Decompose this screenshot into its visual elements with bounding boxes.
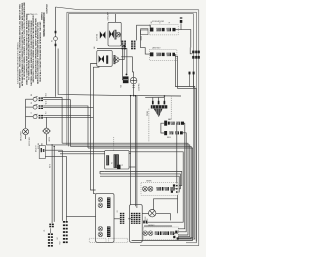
probe pins	[152, 97, 165, 104]
wire right drop1	[176, 123, 178, 183]
wire sw2b	[43, 107, 93, 109]
wire neutral drop	[55, 7, 57, 37]
svg-text:BK-70: BK-70	[49, 164, 51, 168]
connector CT1	[122, 41, 126, 50]
label M2	[48, 137, 51, 142]
wire bus1	[62, 143, 188, 235]
label E2	[167, 137, 171, 139]
svg-text:P1: P1	[44, 230, 46, 232]
connector CB1	[120, 213, 124, 224]
lamp B	[113, 55, 119, 64]
motor M1 leads	[25, 135, 27, 139]
label CB	[117, 210, 119, 212]
igniter chain T	[141, 183, 178, 196]
motor M4	[145, 210, 156, 225]
svg-text:8101P569-60 WIRING INFORMATIO: 8101P569-60 WIRING INFORMATION SCHEMATIC	[17, 41, 20, 84]
thermal fuse	[120, 76, 128, 88]
wire under3	[100, 176, 179, 192]
component P1 box	[39, 146, 45, 159]
svg-text:IGNITER 2: IGNITER 2	[148, 225, 155, 227]
svg-text:P2-8: P2-8	[59, 241, 61, 244]
subtitle horizontal	[27, 13, 39, 16]
connector W2	[193, 72, 195, 89]
wire KV1	[130, 96, 132, 205]
junction GT1	[176, 185, 178, 187]
wire right drop2	[177, 195, 179, 213]
wire bus y48	[97, 49, 127, 74]
wire K1 r3	[129, 166, 136, 168]
door switch B	[97, 51, 112, 67]
wire A top	[115, 14, 117, 23]
label sw leads	[45, 93, 47, 114]
wire V3b	[65, 156, 67, 221]
svg-text:GY: GY	[57, 237, 59, 239]
title text	[42, 4, 49, 37]
wire E feed	[161, 123, 164, 133]
wire chainB right	[174, 232, 178, 234]
wire B right	[119, 47, 124, 60]
wire B left2	[93, 66, 99, 193]
motor M2 leads	[46, 134, 48, 145]
wire K1 dotted	[113, 137, 115, 151]
connector CB2	[131, 213, 135, 224]
svg-text:R-9: R-9	[45, 111, 47, 113]
junction J2	[55, 44, 57, 47]
connector CL2	[48, 228, 53, 246]
svg-text:BROIL: BROIL	[167, 137, 171, 139]
svg-text:P1: P1	[122, 164, 124, 166]
connector CL1	[49, 224, 54, 228]
wire CT step	[141, 30, 151, 54]
latch switch row 2	[149, 50, 177, 61]
label wire codes	[36, 143, 41, 152]
wire E2 right	[178, 133, 186, 232]
wire L3 drop ext	[67, 96, 69, 146]
wire CB link	[114, 218, 131, 220]
junction A3	[126, 73, 128, 75]
wire fan down	[132, 84, 134, 96]
junction GT3	[176, 191, 178, 193]
fan motor M3	[130, 77, 137, 84]
label row2	[152, 47, 161, 50]
label row1	[152, 20, 165, 23]
wire row1 to R1	[181, 30, 191, 48]
wire CT feed	[137, 25, 151, 40]
wire fuse feed	[121, 49, 124, 80]
wire L2 inner loop	[67, 12, 197, 243]
motor M1 fan	[19, 129, 31, 147]
control board K1	[105, 151, 129, 169]
switch S3	[26, 111, 44, 118]
wire fan feed	[121, 57, 133, 77]
lamp box L dashes	[89, 238, 128, 242]
wire chainT link	[175, 188, 177, 190]
label chainB	[148, 225, 155, 227]
junction GT2	[176, 188, 178, 190]
wire K1 r2	[129, 153, 131, 155]
label B	[94, 46, 96, 49]
wire M4 left	[142, 213, 148, 215]
wire R1 stub	[190, 48, 192, 54]
wire A right	[119, 35, 121, 43]
junction KV2	[135, 95, 137, 97]
label CR text	[59, 241, 61, 244]
label CL text	[44, 164, 59, 240]
label E1	[168, 118, 172, 121]
wire bus y94	[58, 49, 181, 97]
probe bar	[151, 105, 168, 108]
wire sw3 to M2	[46, 117, 48, 128]
lamp box R	[130, 205, 143, 243]
wire V2	[54, 146, 55, 222]
element E1	[164, 121, 184, 126]
motor M2 latch	[42, 128, 51, 134]
wire N top bus	[68, 14, 193, 238]
probe jack	[154, 109, 163, 117]
wire KV2	[135, 96, 137, 206]
wire P1 up	[41, 143, 43, 145]
connector R1	[192, 51, 200, 59]
junction F2	[164, 95, 166, 97]
svg-text:P4: P4	[117, 210, 119, 212]
wire bus2	[47, 145, 190, 237]
wire sw1a	[43, 98, 62, 144]
igniter chain B	[143, 227, 179, 240]
wire feed c1	[58, 150, 105, 152]
wire M4 right	[156, 214, 170, 221]
wire neutral drop 2	[55, 41, 57, 97]
wire K1 r1	[129, 152, 183, 222]
svg-text:BK: BK	[31, 94, 33, 96]
svg-text:BK-54 GY: BK-54 GY	[36, 145, 38, 152]
wire V3	[61, 150, 63, 221]
svg-text:W-12: W-12	[45, 101, 47, 105]
wire sw1b	[43, 100, 70, 147]
junction F1	[133, 95, 135, 97]
wire KV3	[136, 96, 138, 208]
wire under left	[100, 172, 105, 174]
wire lower link	[148, 221, 171, 223]
svg-text:MAYTAG CO.: MAYTAG CO.	[27, 13, 39, 16]
wire bus3	[70, 146, 191, 238]
wire L1 outer loop	[56, 7, 199, 246]
wire sw3b	[43, 116, 93, 118]
wire V3 branch	[66, 216, 95, 218]
wire sw2a	[43, 106, 88, 148]
part number text	[17, 41, 20, 84]
svg-text:WIRING INFORMATION: WIRING INFORMATION	[43, 12, 46, 36]
latch switch row 1	[149, 21, 178, 35]
wire V1	[51, 144, 52, 223]
switch S1	[26, 94, 44, 101]
connector T1	[180, 17, 183, 23]
svg-text:BK-6: BK-6	[45, 93, 47, 96]
wire L2 drop ext	[66, 96, 68, 144]
wire under2	[100, 174, 180, 189]
wire under1	[105, 172, 182, 186]
junction J1	[55, 31, 57, 34]
junction KV1	[130, 95, 132, 97]
wire M4 top	[154, 199, 178, 210]
wire above chainB	[144, 225, 172, 227]
label chainT	[146, 181, 151, 183]
wire row2 right	[175, 54, 195, 239]
connector M5	[143, 221, 147, 224]
wire switch common	[25, 99, 27, 128]
wire E1 right	[178, 123, 185, 229]
svg-text:MOTOR BK-2: MOTOR BK-2	[29, 137, 31, 146]
connector W1	[189, 72, 191, 87]
door switch A	[97, 31, 106, 41]
wire probe feed	[145, 96, 164, 98]
terminal N	[52, 37, 58, 42]
wire CT feed2	[140, 36, 142, 40]
element E2	[164, 131, 183, 135]
wire sw3a	[43, 115, 90, 117]
svg-text:CHECK ALL CONNECTIONS BEFORE O: CHECK ALL CONNECTIONS BEFORE OPERATING T…	[39, 21, 42, 82]
wire bus4	[88, 148, 193, 241]
wire probe gnd	[148, 109, 150, 142]
svg-text:IGNITER: IGNITER	[146, 181, 151, 183]
label A	[107, 12, 110, 20]
label probe	[147, 111, 149, 116]
wire B left1	[91, 64, 97, 191]
switch S2	[26, 102, 44, 109]
lamp box L	[96, 194, 114, 243]
lamp assembly A	[108, 22, 121, 46]
wire P1 right	[45, 150, 66, 156]
component CT box	[141, 29, 148, 35]
wire feed c2	[60, 153, 105, 155]
svg-text:8101P569: 8101P569	[46, 4, 48, 14]
connector CT2	[131, 41, 135, 50]
junction B1	[123, 45, 125, 47]
wire gnd 2	[170, 96, 172, 120]
wire row2 right b	[175, 56, 196, 241]
connector CB3	[136, 213, 140, 224]
label fan	[137, 84, 140, 91]
wire bottom link	[132, 240, 193, 242]
note text block	[19, 2, 42, 88]
svg-text:DOOR SW: DOOR SW	[97, 33, 99, 41]
wire row1 right	[176, 23, 182, 29]
svg-text:P3: P3	[111, 162, 113, 164]
connector CR1	[63, 221, 68, 243]
